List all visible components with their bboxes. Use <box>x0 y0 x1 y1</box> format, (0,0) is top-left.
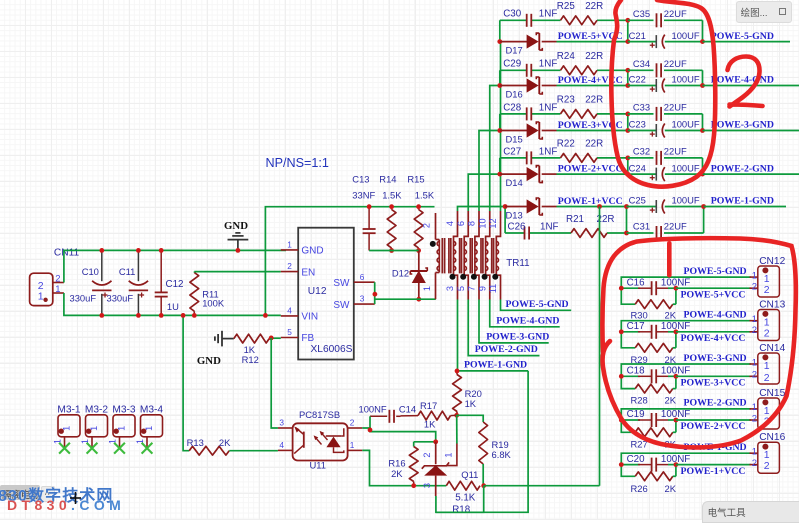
wire <box>557 173 628 175</box>
svg-text:100K: 100K <box>202 297 225 308</box>
net POWE-3-GND <box>711 120 774 131</box>
svg-text:2: 2 <box>350 418 355 428</box>
svg-text:R14: R14 <box>379 174 396 185</box>
net POWE-3+VCC <box>681 378 746 389</box>
wire <box>703 173 799 175</box>
diode D15 <box>500 122 557 144</box>
junction <box>619 374 624 379</box>
svg-text:1NF: 1NF <box>540 221 559 232</box>
wire <box>64 250 286 282</box>
svg-text:22UF: 22UF <box>664 102 687 113</box>
resistor R30 <box>631 288 677 321</box>
junction <box>700 83 705 88</box>
svg-text:2: 2 <box>287 261 292 271</box>
svg-text:POWE-5+VCC: POWE-5+VCC <box>681 289 746 300</box>
junction <box>181 313 186 318</box>
wire <box>456 415 458 443</box>
diode D16 <box>500 77 557 99</box>
svg-text:XL6006S: XL6006S <box>311 344 353 355</box>
net POWE-5-GND <box>711 31 774 42</box>
red circle mark 1 <box>602 238 795 447</box>
svg-text:1: 1 <box>752 314 757 325</box>
svg-text:R24: R24 <box>557 51 576 62</box>
junction <box>597 204 602 209</box>
svg-text:6.8K: 6.8K <box>492 449 512 460</box>
wire <box>621 321 751 348</box>
resistor R17 <box>401 400 457 430</box>
mounting hole M3-2 <box>80 405 108 454</box>
wire <box>468 174 500 211</box>
net POWE-4-GND <box>711 75 774 86</box>
wire <box>500 69 628 71</box>
junction <box>700 39 705 44</box>
net POWE-5+VCC <box>681 289 746 300</box>
watermark DT830.COM <box>7 497 125 513</box>
svg-text:POWE-1+VCC: POWE-1+VCC <box>681 466 746 477</box>
svg-text:D12: D12 <box>392 267 409 278</box>
svg-text:POWE-1-GND: POWE-1-GND <box>711 196 774 207</box>
wire <box>621 453 751 476</box>
svg-text:R18: R18 <box>452 505 471 516</box>
svg-text:C10: C10 <box>82 266 99 277</box>
svg-text:POWE-1-GND: POWE-1-GND <box>464 360 527 371</box>
svg-text:1: 1 <box>764 360 770 372</box>
svg-text:SW: SW <box>333 300 350 311</box>
wire <box>599 207 601 486</box>
watermark 830 <box>0 482 114 506</box>
junction <box>389 204 394 253</box>
wire <box>499 114 501 131</box>
svg-text:2: 2 <box>764 284 770 296</box>
wire <box>676 287 751 289</box>
wire <box>271 338 278 428</box>
capacitor C22 <box>628 74 703 93</box>
junction <box>619 418 624 423</box>
svg-text:1: 1 <box>89 426 99 431</box>
wire <box>627 20 629 41</box>
svg-text:2: 2 <box>55 273 60 284</box>
resistor R19 <box>479 422 512 485</box>
svg-text:POWE-2-GND: POWE-2-GND <box>684 398 747 409</box>
junction <box>700 172 705 177</box>
svg-text:C26: C26 <box>508 221 527 232</box>
svg-text:4: 4 <box>279 440 284 450</box>
wire <box>676 419 751 421</box>
svg-text:100UF: 100UF <box>672 195 700 206</box>
junction <box>368 428 373 433</box>
junction <box>700 128 705 133</box>
svg-text:C20: C20 <box>627 454 646 465</box>
resistor R11 <box>190 272 225 316</box>
svg-text:POWE-2-GND: POWE-2-GND <box>711 163 774 174</box>
svg-text:33NF: 33NF <box>352 189 375 200</box>
mounting hole M3-4 <box>135 405 163 454</box>
wire <box>265 207 434 316</box>
svg-text:22UF: 22UF <box>664 146 687 157</box>
svg-text:10: 10 <box>477 218 487 228</box>
wire <box>702 114 704 131</box>
junction <box>263 313 268 318</box>
resistor R18 <box>446 481 480 515</box>
svg-text:100NF: 100NF <box>359 403 387 414</box>
svg-text:R30: R30 <box>631 310 648 321</box>
wire <box>703 85 799 87</box>
svg-text:M3-1: M3-1 <box>57 405 81 416</box>
svg-text:22R: 22R <box>585 95 603 106</box>
wire <box>500 113 628 115</box>
svg-text:D13: D13 <box>506 209 523 220</box>
svg-text:R21: R21 <box>566 214 584 225</box>
svg-text:C25: C25 <box>629 195 646 206</box>
svg-text:C29: C29 <box>503 59 521 70</box>
wire <box>490 300 560 327</box>
resistor R16 <box>388 442 418 486</box>
svg-text:1NF: 1NF <box>539 59 558 70</box>
svg-text:5.1K: 5.1K <box>455 493 476 504</box>
wire <box>702 20 704 41</box>
junction <box>411 439 438 488</box>
junction <box>674 286 679 291</box>
junction <box>701 204 706 209</box>
panel electric tools <box>702 501 799 523</box>
svg-text:11: 11 <box>488 284 498 294</box>
capacitor C32 <box>628 146 703 165</box>
wire <box>499 158 501 174</box>
wire <box>375 298 436 300</box>
svg-text:1: 1 <box>752 357 757 368</box>
svg-text:C34: C34 <box>633 58 650 69</box>
svg-text:C12: C12 <box>166 279 184 290</box>
junction <box>159 248 164 318</box>
connector CN13 <box>750 299 786 340</box>
svg-text:7: 7 <box>467 286 477 291</box>
junction <box>99 248 104 318</box>
resistor R13 <box>183 315 278 455</box>
svg-text:POWE-5-GND: POWE-5-GND <box>684 266 747 277</box>
svg-text:POWE-3-GND: POWE-3-GND <box>486 332 549 343</box>
svg-text:U12: U12 <box>308 286 327 297</box>
wire <box>64 293 281 315</box>
capacitor C18 <box>627 366 691 384</box>
svg-text:6: 6 <box>456 221 466 226</box>
wire <box>499 20 501 41</box>
svg-text:POWE-3-GND: POWE-3-GND <box>684 353 747 364</box>
junction <box>674 374 679 379</box>
svg-text:POWE-4-GND: POWE-4-GND <box>711 75 774 86</box>
svg-text:1: 1 <box>287 240 292 250</box>
svg-text:1: 1 <box>61 426 71 431</box>
wire <box>505 232 626 234</box>
svg-text:2: 2 <box>422 223 432 228</box>
svg-text:POWE-4-GND: POWE-4-GND <box>684 310 747 321</box>
wire <box>702 158 704 174</box>
svg-text:C32: C32 <box>633 146 650 157</box>
wire <box>457 415 484 422</box>
svg-text:C22: C22 <box>629 74 646 85</box>
ground <box>197 331 234 367</box>
net POWE-5-GND <box>506 299 569 310</box>
net POWE-3+VCC <box>558 120 623 131</box>
svg-text:NP/NS=1:1: NP/NS=1:1 <box>266 156 329 170</box>
junction <box>497 172 502 177</box>
svg-text:C24: C24 <box>629 162 646 173</box>
svg-text:C11: C11 <box>119 266 136 277</box>
mounting hole M3-3 <box>108 405 136 454</box>
svg-text:2: 2 <box>752 413 757 424</box>
junction <box>625 156 630 177</box>
connector CN16 <box>750 432 786 473</box>
svg-text:100UF: 100UF <box>672 74 700 85</box>
wire <box>703 207 705 234</box>
net POWE-1+VCC <box>681 466 746 477</box>
svg-text:POWE-2+VCC: POWE-2+VCC <box>558 164 623 175</box>
text NP/NS=1:1 <box>266 156 329 170</box>
red circle mark 2 <box>611 0 715 187</box>
svg-text:5: 5 <box>287 327 292 337</box>
svg-text:100UF: 100UF <box>672 119 700 130</box>
svg-text:CN11: CN11 <box>54 248 80 259</box>
tab isolate-power <box>0 485 40 500</box>
wire <box>557 206 627 208</box>
capacitor C12 <box>155 250 184 315</box>
svg-text:SW: SW <box>333 278 350 289</box>
wire <box>484 485 600 487</box>
svg-text:3: 3 <box>360 294 365 304</box>
capacitor C25 <box>627 195 704 214</box>
svg-text:CN13: CN13 <box>759 299 785 310</box>
junction <box>136 248 141 318</box>
capacitor C30 <box>503 9 557 27</box>
svg-text:2: 2 <box>764 327 770 339</box>
wire <box>702 70 704 85</box>
junction <box>497 39 502 44</box>
svg-text:6: 6 <box>360 272 365 282</box>
wire <box>479 131 500 212</box>
wire <box>501 300 572 311</box>
svg-text:1NF: 1NF <box>539 9 558 20</box>
svg-text:1: 1 <box>116 426 126 431</box>
red numeral 1 <box>667 243 672 275</box>
diode D12 <box>392 251 427 300</box>
wire <box>499 42 502 211</box>
connector CN14 <box>750 343 786 384</box>
svg-text:1.5K: 1.5K <box>382 189 402 200</box>
svg-text:1: 1 <box>752 270 757 281</box>
wire <box>703 41 791 43</box>
wire <box>704 206 786 208</box>
net POWE-2-GND <box>475 344 538 355</box>
svg-text:R22: R22 <box>557 139 575 150</box>
net POWE-5+VCC <box>558 31 623 42</box>
svg-text:2: 2 <box>422 452 432 457</box>
resistor R15 <box>407 174 434 251</box>
capacitor C11 <box>107 250 149 315</box>
net POWE-3-GND <box>486 332 549 343</box>
wire <box>627 158 629 174</box>
cursor cross <box>70 491 82 505</box>
net POWE-1-GND <box>464 360 527 371</box>
capacitor C26 <box>508 221 559 239</box>
resistor R23 <box>557 95 603 119</box>
svg-text:1: 1 <box>144 426 154 431</box>
capacitor C10 <box>70 250 112 315</box>
svg-text:C17: C17 <box>627 321 645 332</box>
svg-text:C27: C27 <box>503 146 521 157</box>
svg-text:5: 5 <box>456 286 466 291</box>
svg-text:EN: EN <box>301 267 315 278</box>
svg-text:2K: 2K <box>219 437 231 448</box>
svg-text:R23: R23 <box>557 95 576 106</box>
svg-text:1K: 1K <box>465 398 477 409</box>
svg-text:1: 1 <box>752 447 757 458</box>
svg-text:1NF: 1NF <box>539 146 558 157</box>
connector CN15 <box>750 388 786 429</box>
svg-text:POWE-3-GND: POWE-3-GND <box>711 120 774 131</box>
junction <box>624 204 629 235</box>
connector CN12 <box>750 256 786 297</box>
junction <box>674 418 679 423</box>
junction <box>674 329 679 334</box>
red numeral 2 <box>728 57 763 107</box>
junction <box>619 329 624 334</box>
svg-text:GND: GND <box>301 246 323 257</box>
svg-text:22UF: 22UF <box>664 58 687 69</box>
connector CN11 <box>30 248 80 306</box>
capacitor C34 <box>628 58 703 77</box>
capacitor C17 <box>627 321 691 339</box>
svg-text:2: 2 <box>764 460 770 472</box>
svg-text:C28: C28 <box>503 102 522 113</box>
svg-text:CN16: CN16 <box>759 432 785 443</box>
svg-text:R26: R26 <box>631 483 648 494</box>
resistor R29 <box>631 332 677 365</box>
svg-text:C33: C33 <box>633 102 650 113</box>
net POWE-4-GND <box>684 310 747 321</box>
svg-text:POWE-4+VCC: POWE-4+VCC <box>681 333 746 344</box>
ground <box>224 220 248 250</box>
svg-text:1: 1 <box>55 284 60 295</box>
capacitor C19 <box>627 409 691 427</box>
net POWE-2+VCC <box>558 164 623 175</box>
capacitor C31 <box>627 221 704 240</box>
resistor R14 <box>379 174 402 251</box>
svg-text:R15: R15 <box>407 174 424 185</box>
junction <box>625 68 630 88</box>
wire <box>479 300 549 343</box>
resistor R25 <box>557 1 603 25</box>
wire <box>676 331 751 333</box>
wire <box>490 86 500 212</box>
svg-text:FB: FB <box>301 333 314 344</box>
svg-text:C14: C14 <box>399 403 416 414</box>
svg-text:M3-3: M3-3 <box>112 405 136 416</box>
wire <box>621 409 751 432</box>
svg-text:D16: D16 <box>506 88 523 99</box>
svg-text:100UF: 100UF <box>672 162 700 173</box>
svg-text:R13: R13 <box>187 437 204 448</box>
net POWE-4+VCC <box>558 75 623 86</box>
capacitor C20 <box>627 454 691 472</box>
capacitor C33 <box>628 102 703 121</box>
svg-text:C18: C18 <box>627 366 646 377</box>
net POWE-1+VCC <box>558 196 623 207</box>
svg-text:1.5K: 1.5K <box>415 189 435 200</box>
junction <box>674 462 679 467</box>
capacitor C21 <box>628 30 703 49</box>
resistor R28 <box>631 376 677 405</box>
svg-text:Q11: Q11 <box>461 469 478 480</box>
junction <box>454 369 459 418</box>
svg-text:R17: R17 <box>420 400 437 411</box>
wire <box>557 130 628 132</box>
svg-text:CN14: CN14 <box>759 343 785 354</box>
svg-text:GND: GND <box>224 220 248 232</box>
capacitor C35 <box>628 8 703 27</box>
junction <box>497 128 502 133</box>
op-amp U12 XL6006S <box>281 228 375 360</box>
svg-text:POWE-5-GND: POWE-5-GND <box>506 299 569 310</box>
capacitor C13 <box>352 174 375 251</box>
transformer TR11 <box>422 211 530 300</box>
svg-text:M3-2: M3-2 <box>85 405 109 416</box>
svg-text:C16: C16 <box>627 277 646 288</box>
svg-text:2: 2 <box>764 372 770 384</box>
svg-text:1: 1 <box>350 440 355 450</box>
svg-text:CN12: CN12 <box>759 256 785 267</box>
junction <box>503 204 508 209</box>
svg-text:3: 3 <box>445 286 455 291</box>
junction <box>373 292 378 297</box>
net POWE-3-GND <box>684 353 747 364</box>
svg-text:C21: C21 <box>629 30 646 41</box>
svg-text:C13: C13 <box>352 174 369 185</box>
svg-text:12: 12 <box>488 218 498 228</box>
wire <box>468 300 539 356</box>
svg-text:D17: D17 <box>506 44 523 55</box>
wire <box>621 375 640 377</box>
svg-text:PC817SB: PC817SB <box>299 409 340 420</box>
net POWE-1-GND <box>684 442 747 453</box>
wire <box>557 85 628 87</box>
wire <box>627 70 629 85</box>
wire <box>362 428 435 442</box>
net POWE-4+VCC <box>681 333 746 344</box>
wire <box>499 70 501 85</box>
svg-text:C30: C30 <box>503 9 522 20</box>
net POWE-4-GND <box>496 315 559 326</box>
wire <box>621 364 751 389</box>
svg-text:22R: 22R <box>585 51 603 62</box>
svg-text:1: 1 <box>444 452 454 457</box>
svg-text:22R: 22R <box>585 1 603 12</box>
svg-text:22UF: 22UF <box>664 8 687 19</box>
diode D14 <box>500 166 557 188</box>
op-amp U11 PC817SB <box>278 409 362 471</box>
svg-text:C19: C19 <box>627 409 645 420</box>
svg-text:POWE-3+VCC: POWE-3+VCC <box>681 378 746 389</box>
wire <box>436 371 528 512</box>
net POWE-5-GND <box>684 266 747 277</box>
svg-text:C35: C35 <box>633 8 650 19</box>
capacitor C24 <box>628 162 703 181</box>
resistor R21 <box>566 214 614 238</box>
wire <box>369 416 371 430</box>
svg-text:VIN: VIN <box>301 312 318 323</box>
svg-text:POWE-5-GND: POWE-5-GND <box>711 31 774 42</box>
svg-text:CN15: CN15 <box>759 388 785 399</box>
svg-text:4: 4 <box>287 306 292 316</box>
capacitor C14 <box>359 403 417 422</box>
